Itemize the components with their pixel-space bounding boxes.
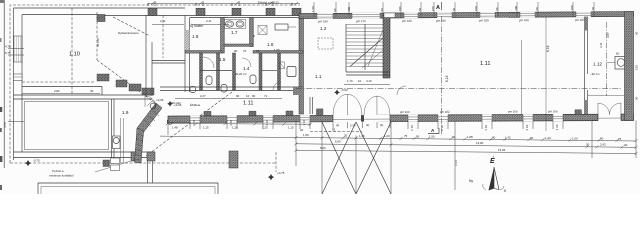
svg-text:90: 90 (236, 94, 240, 98)
column circle at ramp top (150, 103, 156, 109)
door arc hall to stairwell (397, 86, 406, 95)
svg-text:10: 10 (358, 79, 362, 83)
svg-text:10: 10 (246, 94, 250, 98)
svg-text:1.8: 1.8 (192, 34, 199, 39)
small circle column at band corner (167, 119, 173, 125)
svg-text:1,88: 1,88 (467, 135, 473, 139)
svg-text:Tisztító a: Tisztító a (52, 169, 64, 173)
svg-text:90: 90 (252, 94, 256, 98)
svg-text:100: 100 (431, 6, 435, 11)
svg-text:Ny: Ny (469, 179, 473, 183)
svg-text:100: 100 (514, 5, 518, 10)
svg-text:+0,75: +0,75 (277, 171, 285, 175)
svg-text:2,11: 2,11 (206, 19, 212, 23)
dim line above middle block piers (148, 3, 300, 5)
left block top wall outer (14, 7, 186, 9)
bottom wall of middle block (160, 86, 303, 88)
piers above top wall (148, 8, 157, 15)
toilets (206, 76, 212, 85)
dim row under middle block (175, 98, 282, 100)
svg-text:1,50: 1,50 (311, 6, 315, 12)
svg-text:pm 180: pm 180 (479, 18, 489, 22)
svg-text:5,00: 5,00 (335, 140, 341, 144)
svg-text:100: 100 (570, 5, 574, 10)
stair landing (346, 71, 390, 73)
piers on bottom band (131, 152, 139, 161)
svg-text:pm 160: pm 160 (508, 109, 518, 113)
small cluster blocks bottom (103, 160, 110, 167)
dimension tick verticals above top band (314, 2, 594, 17)
svg-text:1,43: 1,43 (545, 136, 551, 140)
porch wall piece right of middle block (309, 97, 311, 114)
chain row 3 (296, 150, 636, 153)
svg-text:A: A (436, 5, 440, 11)
svg-text:1.7: 1.7 (231, 30, 238, 35)
svg-text:3,11: 3,11 (599, 42, 603, 48)
washbasin 1 (225, 20, 246, 29)
centerline dashed x163 (162, 15, 164, 58)
svg-text:60: 60 (635, 31, 639, 35)
svg-text:30 150: 30 150 (96, 38, 100, 47)
divider wall of left block (14, 94, 153, 96)
svg-text:90: 90 (530, 136, 534, 140)
stair stringer (364, 24, 366, 70)
porch wall between blocks (152, 60, 185, 62)
svg-text:60: 60 (616, 52, 620, 56)
level mark +0,75 right (268, 174, 274, 180)
hall centerline dash-dot horizontal (296, 88, 622, 90)
svg-text:1.6: 1.6 (267, 42, 274, 47)
svg-text:2,82: 2,82 (54, 89, 60, 93)
svg-text:1,15: 1,15 (288, 126, 294, 130)
stall front wall (200, 70, 232, 72)
pier stub west of doors (316, 109, 323, 116)
svg-text:30,20 m²: 30,20 m² (235, 72, 246, 76)
svg-text:4,75: 4,75 (5, 45, 11, 49)
svg-text:3,87: 3,87 (606, 32, 610, 38)
svg-text:pm 180: pm 180 (575, 18, 585, 22)
svg-text:60: 60 (290, 2, 294, 6)
svg-text:5,75: 5,75 (5, 51, 11, 55)
door arc from left block to 1.9 (145, 96, 156, 107)
svg-text:medence korlátától: medence korlátától (49, 174, 74, 178)
svg-text:90: 90 (416, 134, 420, 138)
pilaster stubs above band (204, 111, 211, 116)
shower X in 1.6 (258, 26, 267, 35)
svg-text:90: 90 (600, 137, 604, 141)
rotated 2|10 texts below band (192, 118, 559, 132)
svg-text:-0,00: -0,00 (341, 88, 348, 92)
svg-text:1.4: 1.4 (243, 66, 250, 71)
svg-text:1,15: 1,15 (203, 126, 209, 130)
svg-text:2 10: 2 10 (302, 119, 306, 125)
svg-text:1,48: 1,48 (172, 126, 178, 130)
svg-text:1.9: 1.9 (122, 110, 129, 115)
washbasin 2 (236, 21, 244, 27)
washbasin right lower (287, 67, 296, 77)
svg-text:1,50: 1,50 (303, 133, 309, 137)
centerline dashed in room 1.10 (96, 12, 98, 60)
column circle with base pedestal (113, 136, 121, 149)
svg-text:Nyílászárócsere: Nyílászárócsere (118, 31, 139, 35)
svg-text:~92 cm: ~92 cm (590, 72, 600, 76)
svg-text:90: 90 (366, 123, 370, 127)
svg-text:20: 20 (624, 143, 628, 147)
svg-text:60: 60 (635, 96, 639, 100)
pier on top wall step (97, 15, 105, 22)
svg-text:75: 75 (404, 134, 408, 138)
svg-text:60: 60 (230, 2, 234, 6)
windows in bottom band (190, 114, 563, 123)
stair band hatched wall 1.9 lower (135, 128, 144, 163)
svg-text:90: 90 (234, 49, 238, 53)
staggered hatched wall steps (97, 74, 109, 81)
door pair 2 arcs (364, 96, 377, 115)
svg-text:1,00: 1,00 (572, 136, 578, 140)
property line left (3, 0, 5, 168)
svg-text:75: 75 (618, 137, 622, 141)
svg-text:13,90: 13,90 (476, 141, 484, 145)
svg-text:Új födém: Új födém (190, 24, 203, 28)
dashed outline top of left block (10, 5, 300, 163)
svg-text:pm 170: pm 170 (356, 19, 366, 23)
svg-text:20: 20 (300, 128, 304, 132)
svg-text:100: 100 (398, 6, 402, 11)
door pair 1 arcs (333, 94, 348, 115)
svg-text:90: 90 (492, 135, 496, 139)
nyilaszaro leader text top (113, 17, 150, 36)
level mark +0,06 (167, 101, 173, 107)
wall 1.8|1.7 (221, 18, 225, 54)
svg-text:150: 150 (635, 65, 639, 70)
svg-text:pm 180: pm 180 (318, 19, 328, 23)
svg-text:2 10: 2 10 (192, 120, 196, 126)
1.12 fixture (615, 57, 628, 70)
terrace X cross bay 2 (356, 122, 391, 194)
chain row 1 (160, 136, 636, 141)
pipe chase lines (120, 118, 122, 163)
right outer wall (625, 12, 634, 121)
1.12 centerline (606, 22, 608, 96)
BOTTOM WALL BAND continuous with window gaps (168, 114, 634, 123)
wall under 1.8 / 1.6 (185, 51, 222, 54)
svg-text:100: 100 (474, 6, 478, 11)
svg-text:15,05: 15,05 (498, 148, 506, 152)
dashed band bottom left (10, 162, 276, 164)
stair left line (345, 24, 347, 72)
svg-text:1,43: 1,43 (505, 136, 511, 140)
left block outer left wall (13, 8, 15, 160)
svg-text:1.11: 1.11 (243, 101, 253, 107)
svg-text:-0,75: -0,75 (33, 159, 40, 163)
svg-text:1.10: 1.10 (69, 52, 80, 58)
svg-text:2 10: 2 10 (555, 124, 559, 130)
scan artifacts corners (0, 0, 4, 3)
pilaster stub near divider (575, 110, 582, 115)
window hatch in left wall (14, 36, 23, 62)
pm 180 texts below top band (318, 18, 585, 24)
right wall of left block (145, 15, 147, 96)
svg-text:1.12: 1.12 (593, 62, 602, 67)
level mark +0,75 left (25, 160, 31, 166)
svg-text:pm 160: pm 160 (548, 109, 558, 113)
stair treads (346, 25, 383, 67)
svg-text:pm 180: pm 180 (402, 19, 412, 23)
pool outline (38, 183, 218, 194)
ramp diagonal hatched wall 1.9 (137, 103, 162, 133)
svg-text:2 10: 2 10 (525, 124, 529, 130)
leader dashed diagonals from node (97, 60, 155, 103)
expansion joint line in hall (545, 17, 547, 132)
fixture top right of 1.6 (275, 24, 288, 30)
svg-text:1,50: 1,50 (429, 135, 435, 139)
long verticals (167, 121, 169, 136)
svg-text:90: 90 (336, 123, 340, 127)
lower room right wall (111, 99, 113, 164)
middle block right wall (299, 16, 304, 115)
svg-text:+0,06: +0,06 (174, 103, 182, 107)
svg-text:+0,06: +0,06 (156, 98, 164, 102)
svg-text:1.2: 1.2 (320, 26, 327, 31)
svg-text:É: É (490, 156, 495, 165)
svg-text:60: 60 (333, 8, 337, 12)
svg-text:60: 60 (452, 7, 456, 11)
dotted guide line in room 1.10 (22, 81, 95, 83)
svg-text:1.11: 1.11 (480, 61, 490, 67)
lower room inner outline (25, 102, 109, 150)
svg-text:Előtető sz=+113: Előtető sz=+113 (258, 1, 279, 5)
left wall dim ticks (8, 48, 24, 50)
ramp treads upper (144, 100, 159, 126)
pool inlet double line (147, 161, 149, 183)
svg-text:ÉSZlete: ÉSZlete (190, 102, 201, 107)
top wall middle block (185, 15, 303, 17)
scan artifacts left edge (0, 107, 2, 112)
svg-text:1,70: 1,70 (347, 79, 353, 83)
window opening in left wall (14, 74, 23, 81)
svg-text:4,10: 4,10 (366, 79, 372, 83)
lower-left room bottom wall (14, 151, 156, 153)
svg-text:60: 60 (495, 7, 499, 11)
small dashed dim above chain1 (310, 131, 362, 133)
svg-text:70: 70 (243, 49, 247, 53)
svg-text:60: 60 (535, 7, 539, 11)
dim 2,82 (22, 93, 100, 95)
svg-text:2,43: 2,43 (600, 143, 606, 147)
lower rooms partitions (200, 53, 203, 90)
svg-text:pm 180: pm 180 (436, 19, 446, 23)
wall between 1.11 and 1.12 (584, 17, 586, 115)
windows in top band (317, 11, 591, 18)
tick verticals below bottom band windows (190, 121, 563, 129)
svg-text:1.5: 1.5 (219, 57, 226, 62)
middle block left wall (184, 16, 186, 93)
wall 1.7|1.6 (250, 18, 254, 47)
svg-text:6,16: 6,16 (445, 75, 449, 82)
stair right wall (383, 15, 390, 78)
door dim ticks (333, 122, 390, 128)
svg-text:2 10: 2 10 (410, 125, 414, 131)
svg-text:71: 71 (264, 94, 268, 98)
svg-text:90: 90 (380, 123, 384, 127)
svg-text:pm 160: pm 160 (400, 110, 410, 114)
room 1.10 bottom wall (22, 87, 102, 96)
svg-text:2 10: 2 10 (484, 125, 488, 131)
svg-text:75: 75 (256, 49, 260, 53)
svg-text:60: 60 (418, 8, 422, 12)
svg-text:60: 60 (194, 2, 198, 6)
svg-text:2 10: 2 10 (440, 125, 444, 131)
svg-text:60: 60 (380, 8, 384, 12)
chain row 2 (296, 144, 636, 148)
level mark 0,00 (334, 90, 340, 96)
section line A-A vertical dash-dot (441, 16, 443, 135)
svg-text:1.1: 1.1 (315, 74, 322, 79)
svg-text:5,00: 5,00 (320, 146, 326, 150)
svg-text:60: 60 (146, 2, 150, 6)
svg-text:60: 60 (591, 7, 595, 11)
stair up diagonal (350, 38, 383, 67)
svg-text:4,50: 4,50 (3, 122, 7, 128)
svg-text:3,14: 3,14 (454, 160, 458, 166)
door arcs lower rooms (203, 57, 214, 68)
main entrance double doors (two pairs opening into hall) (333, 115, 390, 122)
left block top wall inner (22, 14, 97, 16)
terrace X cross bay 1 (322, 122, 356, 194)
left chain row (167, 123, 311, 126)
rotated tick texts above top band (311, 4, 595, 12)
svg-text:83: 83 (332, 128, 336, 132)
svg-text:20: 20 (344, 134, 348, 138)
wall under 1.7 (224, 44, 253, 46)
svg-text:pm 180: pm 180 (519, 18, 529, 22)
svg-text:2,27: 2,27 (200, 94, 206, 98)
TOP WALL BAND of hall continuous (299, 11, 634, 18)
svg-text:6,16: 6,16 (546, 45, 550, 52)
stair band treads lower (134, 134, 144, 160)
svg-text:40: 40 (90, 89, 94, 93)
east double door to 1.12 (598, 114, 621, 121)
